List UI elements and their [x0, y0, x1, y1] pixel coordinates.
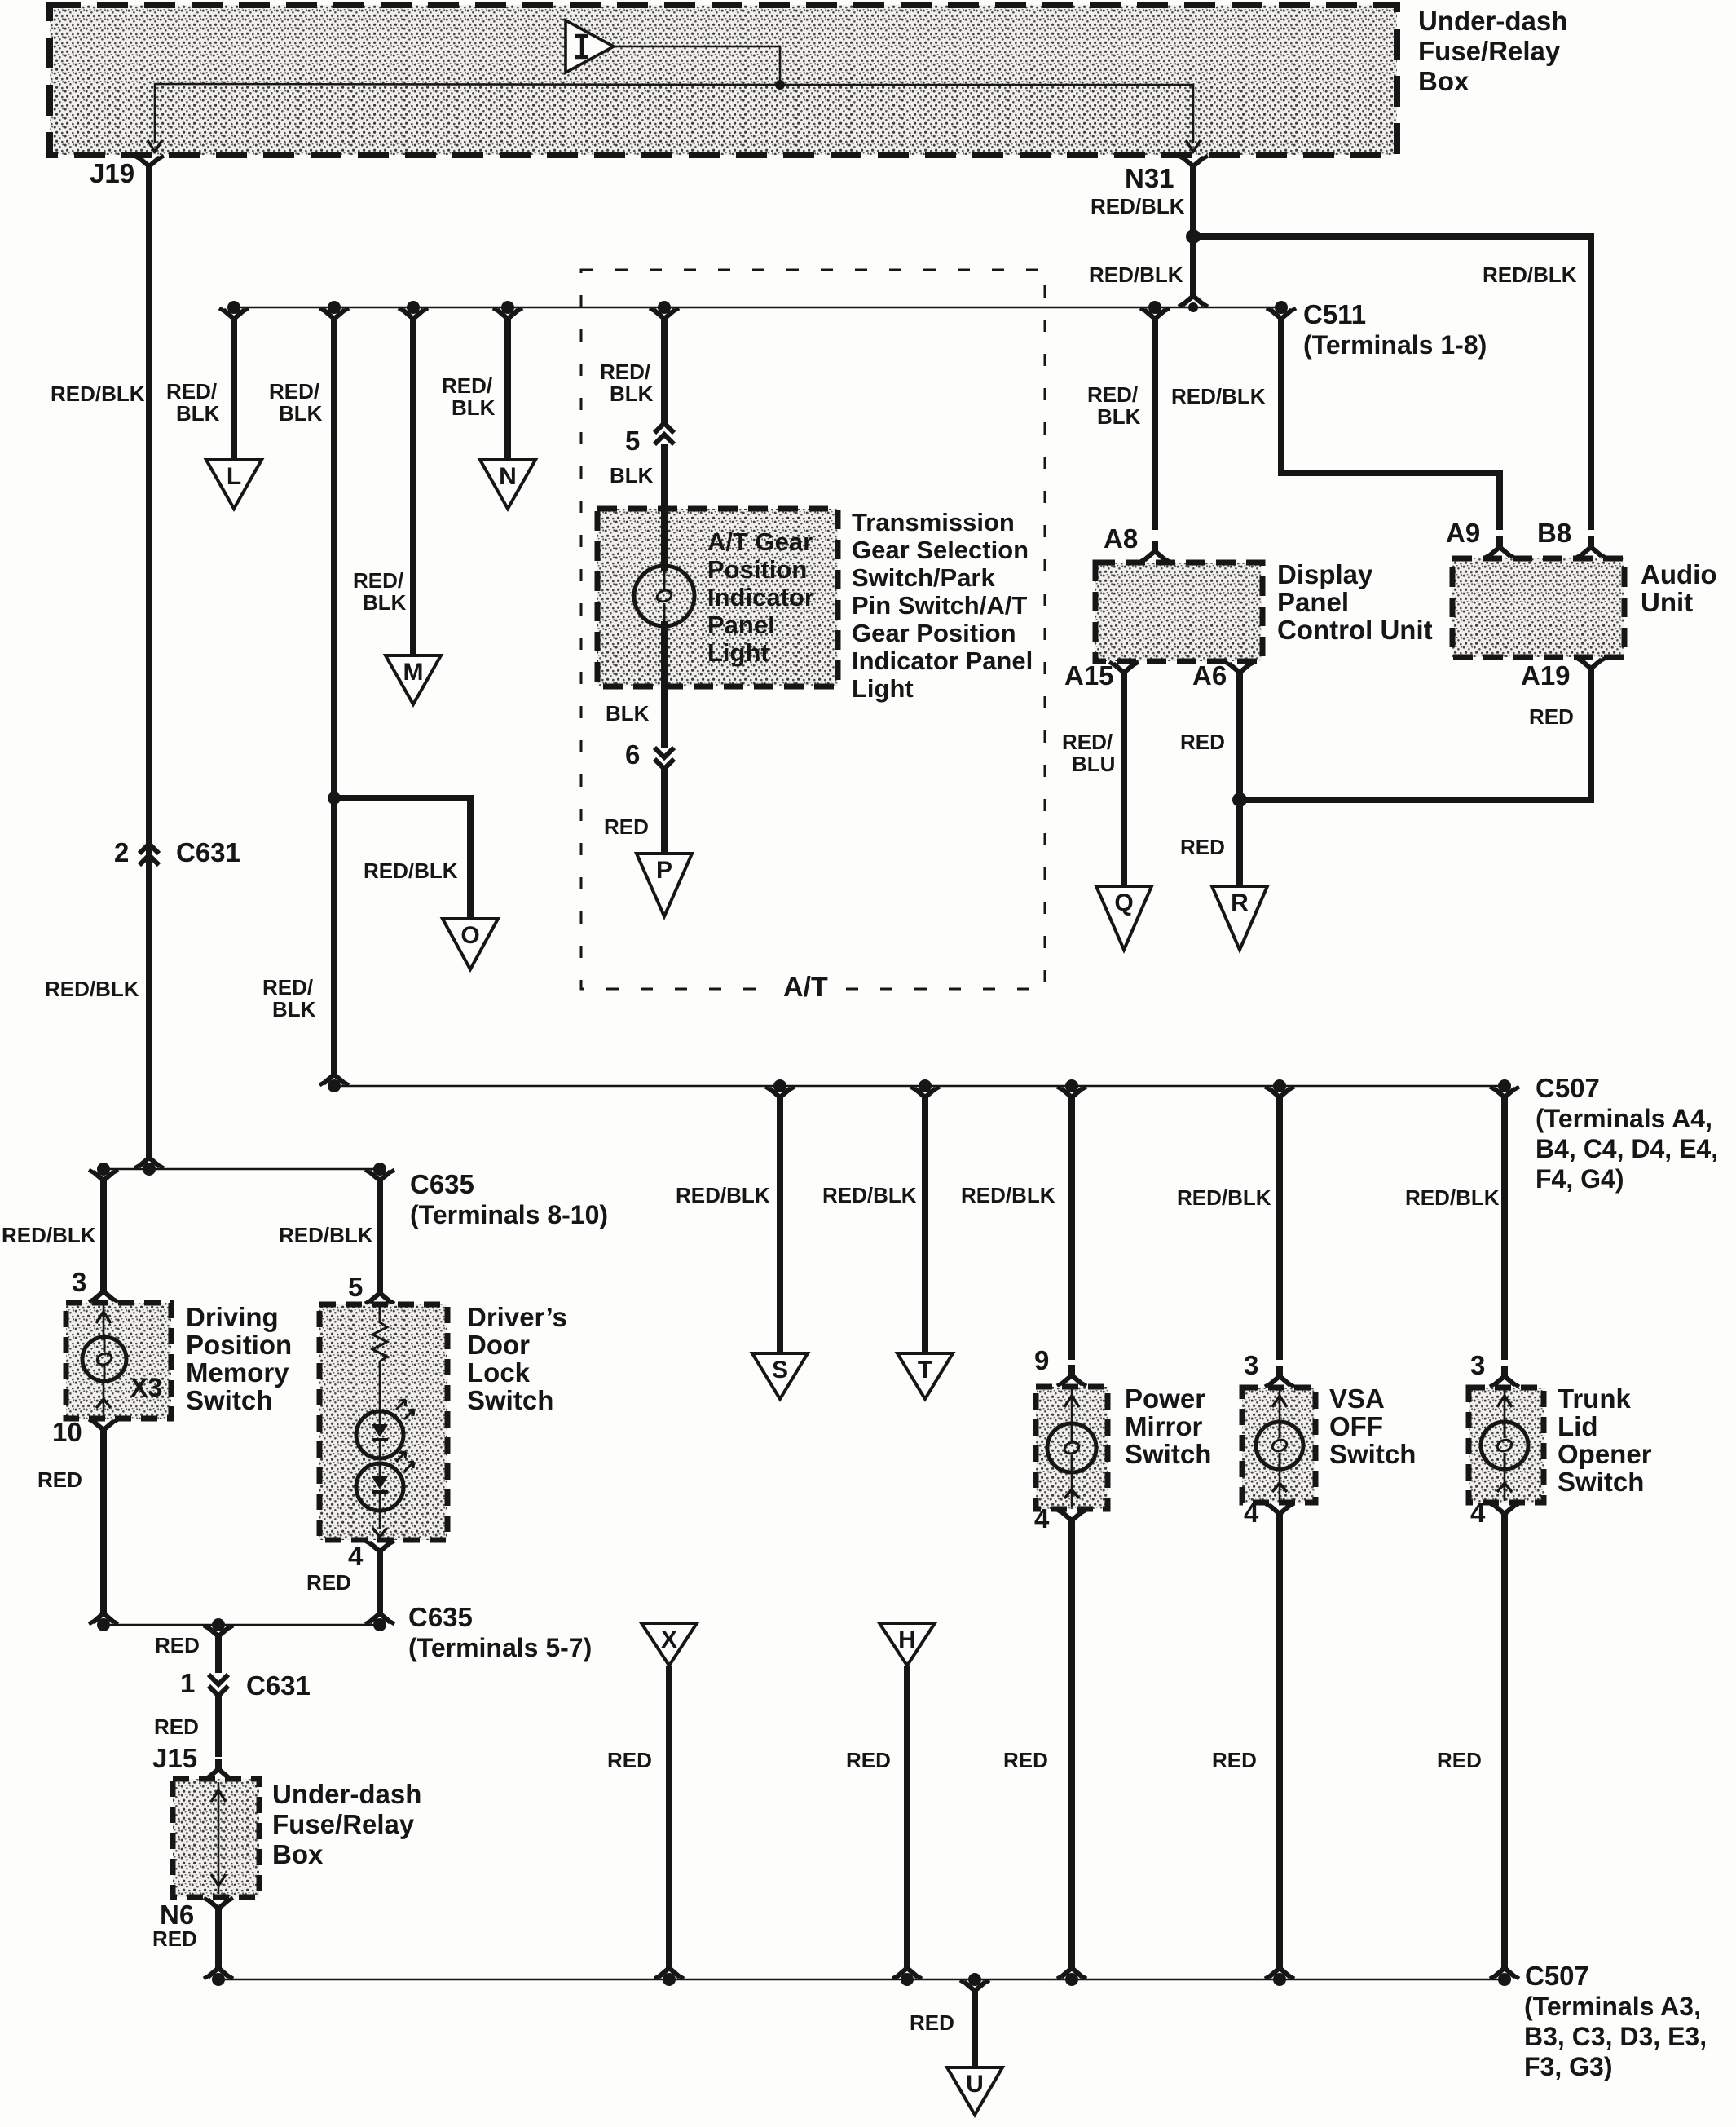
label RED (U) [910, 2010, 954, 2035]
arrow into J19 [148, 140, 162, 152]
wire to VSA switch [1265, 1087, 1294, 1360]
svg-text:RED/BLK: RED/BLK [1177, 1185, 1271, 1210]
wire A19 RED [1240, 675, 1591, 800]
svg-text:RED/: RED/ [1062, 730, 1113, 754]
node bus2 right end [1498, 1079, 1511, 1092]
node bus4 at X [663, 1973, 676, 1986]
svg-text:RED/: RED/ [353, 568, 403, 593]
svg-text:A15: A15 [1064, 660, 1114, 691]
svg-text:5: 5 [348, 1272, 363, 1302]
svg-text:N: N [499, 463, 517, 490]
svg-text:Memory: Memory [186, 1357, 289, 1388]
A/T gear position indicator panel light (bulb box) [597, 509, 838, 686]
terminal 5 (door lock) [348, 1272, 394, 1304]
wire to audio unit B8 [1193, 236, 1591, 530]
svg-text:(Terminals A4,: (Terminals A4, [1536, 1104, 1712, 1133]
svg-text:3: 3 [1470, 1350, 1485, 1380]
label: Driver's Door Lock Switch [467, 1302, 567, 1415]
connector triangle P [637, 854, 692, 916]
terminal 3 (memory switch) [72, 1267, 118, 1302]
node bus2 at VSA [1273, 1079, 1286, 1092]
svg-text:F4, G4): F4, G4) [1536, 1164, 1624, 1194]
node bus4 right end [1498, 1973, 1511, 1986]
svg-text:Switch: Switch [1558, 1467, 1644, 1497]
branch wire to O [334, 798, 470, 920]
svg-text:RED/: RED/ [262, 975, 313, 1000]
svg-text:C635: C635 [408, 1602, 473, 1632]
svg-text:Lock: Lock [467, 1357, 531, 1388]
terminal A9 [1446, 518, 1514, 558]
svg-text:C631: C631 [246, 1670, 311, 1701]
svg-text:Unit: Unit [1641, 587, 1693, 617]
svg-text:4: 4 [1244, 1498, 1259, 1528]
label RED/BLK (trunk) [1405, 1185, 1500, 1210]
display panel control unit [1095, 563, 1262, 661]
terminal at C635 bus [134, 1147, 164, 1168]
node bus3 mid [212, 1618, 225, 1631]
label: Under-dash Fuse/Relay Box [1418, 6, 1567, 96]
trunk lid opener switch box [1469, 1388, 1544, 1503]
svg-text:C511: C511 [1303, 299, 1366, 329]
svg-text:9: 9 [1034, 1345, 1049, 1375]
label inside bulb box [707, 527, 814, 667]
wire memory switch RED [100, 1436, 107, 1610]
connector triangle H [879, 1623, 935, 1666]
bus C635 terminals 8-10 [104, 1168, 380, 1171]
node bus4 at U [968, 1973, 981, 1986]
svg-text:RED/: RED/ [600, 360, 650, 384]
svg-text:4: 4 [1470, 1498, 1486, 1528]
terminal 9 [1034, 1345, 1086, 1386]
connector triangle R [1212, 886, 1267, 950]
svg-text:B8: B8 [1537, 518, 1571, 548]
label: Trunk Lid Opener Switch [1558, 1383, 1652, 1497]
label: Display Panel Control Unit [1277, 559, 1433, 645]
svg-text:Driving: Driving [186, 1302, 279, 1332]
svg-text:Mirror: Mirror [1125, 1411, 1203, 1441]
svg-text:Display: Display [1277, 559, 1373, 589]
node on bus at L branch [227, 301, 240, 314]
svg-text:P: P [656, 857, 672, 884]
label: Power Mirror Switch [1125, 1383, 1211, 1469]
svg-text:F3, G3): F3, G3) [1524, 2052, 1612, 2081]
wire J19 RED/BLK [146, 173, 152, 1156]
svg-text:J15: J15 [152, 1743, 197, 1773]
terminal at bus4 (X) [654, 1957, 684, 1979]
wire to driving position memory switch [89, 1170, 118, 1292]
wire to A/T light [650, 308, 679, 425]
bus C507 terminals A4-G4 [334, 1085, 1506, 1088]
label RED/BLK (L branch) [166, 379, 220, 426]
terminal 10 [52, 1417, 118, 1447]
svg-text:BLK: BLK [610, 463, 654, 488]
svg-text:OFF: OFF [1329, 1411, 1383, 1441]
terminal 4 (VSA) [1244, 1498, 1294, 1528]
svg-text:C507: C507 [1536, 1073, 1600, 1103]
svg-text:Trunk: Trunk [1558, 1383, 1631, 1414]
label RED (P branch) [604, 814, 649, 839]
svg-text:4: 4 [348, 1541, 364, 1571]
node bus3 left [97, 1618, 110, 1631]
svg-text:Box: Box [272, 1839, 324, 1869]
node on bus at N branch [501, 301, 514, 314]
svg-text:X3: X3 [130, 1373, 162, 1402]
bulb power mirror [1047, 1423, 1096, 1472]
terminal A19 [1521, 658, 1606, 691]
wire to trunk switch [1490, 1087, 1519, 1360]
svg-text:C631: C631 [176, 837, 240, 867]
wire to power mirror switch [1057, 1087, 1086, 1360]
wire trunk to C507 bus [1501, 1520, 1508, 1965]
label RED/BLK (T) [822, 1183, 917, 1207]
svg-text:T: T [918, 1357, 932, 1383]
label RED/BLK (A9 branch) [1171, 384, 1266, 408]
svg-text:RED: RED [155, 1633, 200, 1657]
svg-text:4: 4 [1034, 1503, 1050, 1533]
svg-text:3: 3 [72, 1267, 86, 1297]
label C507 (A3) [1524, 1961, 1707, 2081]
node bus2 at power mirror [1065, 1079, 1078, 1092]
wire bus3 down RED [204, 1626, 233, 1673]
wire H RED [904, 1666, 910, 1965]
svg-text:RED/BLK: RED/BLK [51, 382, 145, 406]
arrow into N31 [1186, 140, 1201, 152]
terminal A6 [1192, 660, 1254, 691]
svg-text:S: S [772, 1357, 788, 1383]
svg-text:M: M [403, 659, 424, 686]
svg-text:B3, C3, D3, E3,: B3, C3, D3, E3, [1524, 2022, 1707, 2051]
connector triangle Q [1096, 886, 1152, 950]
svg-text:RED: RED [846, 1748, 891, 1772]
trunk switch internals [1497, 1389, 1512, 1501]
node bus4 at VSA [1273, 1973, 1286, 1986]
svg-text:1: 1 [180, 1668, 195, 1698]
terminal at bus4 (power mirror) [1057, 1957, 1086, 1979]
terminal B8 [1537, 518, 1606, 558]
svg-text:RED/BLK: RED/BLK [45, 977, 139, 1001]
svg-text:(Terminals 1-8): (Terminals 1-8) [1303, 330, 1487, 360]
label RED/BLK (J19 lower) [45, 977, 139, 1001]
svg-text:Light: Light [707, 638, 769, 667]
label X3 [130, 1373, 162, 1402]
svg-text:RED/: RED/ [442, 373, 492, 398]
node on bus at O branch [328, 301, 341, 314]
svg-text:5: 5 [625, 426, 640, 456]
terminal 4 (power mirror) [1034, 1503, 1086, 1533]
node bus4 left end [212, 1973, 225, 1986]
terminal at C635 5-7 bus (left) [89, 1603, 118, 1624]
node on bus at A8 branch [1148, 301, 1161, 314]
node at bus right end [1275, 301, 1288, 314]
svg-text:Driver’s: Driver’s [467, 1302, 567, 1332]
door lock internals: resistor [372, 1306, 387, 1411]
label RED/BLK (A/T branch) [600, 360, 654, 406]
svg-text:BLU: BLU [1072, 752, 1115, 776]
svg-text:Audio: Audio [1641, 559, 1716, 589]
label C635 (8-10) [410, 1169, 608, 1229]
label RED/BLK (memory switch) [2, 1223, 96, 1247]
fuse box internals [211, 1782, 226, 1894]
under-dash fuse/relay box (bottom) [173, 1779, 259, 1897]
node bus2 left end [328, 1079, 341, 1092]
wire inside fuse box to J19 [155, 84, 780, 143]
connector triangle S [752, 1353, 808, 1399]
svg-text:BLK: BLK [452, 395, 496, 420]
svg-text:Indicator: Indicator [707, 583, 814, 611]
svg-text:R: R [1231, 889, 1249, 916]
VSA switch internals [1272, 1389, 1287, 1501]
terminal at bus4 left end [204, 1957, 233, 1979]
connector triangle L [206, 460, 262, 509]
svg-text:Light: Light [852, 674, 914, 703]
wire BLK lower [661, 686, 668, 748]
svg-text:RED/BLK: RED/BLK [1405, 1185, 1500, 1210]
connector triangle M [386, 655, 441, 704]
door lock LED 2 [356, 1452, 414, 1537]
svg-text:Position: Position [707, 555, 807, 584]
wire N6 RED [215, 1915, 222, 1965]
wire to L RED/BLK [219, 308, 249, 461]
svg-text:H: H [898, 1626, 916, 1653]
label RED/BLK (N31 upper) [1091, 194, 1185, 218]
svg-text:BLK: BLK [606, 701, 650, 726]
label BLK (upper) [610, 463, 654, 488]
svg-text:RED/BLK: RED/BLK [676, 1183, 770, 1207]
terminal 3 (VSA) [1244, 1350, 1294, 1387]
svg-text:Q: Q [1114, 889, 1133, 916]
wire to S RED/BLK [765, 1087, 795, 1355]
svg-text:Switch: Switch [1329, 1439, 1416, 1469]
svg-text:RED/BLK: RED/BLK [279, 1223, 373, 1247]
terminal N31 [1125, 156, 1208, 193]
svg-text:Switch/Park: Switch/Park [852, 563, 995, 592]
wire X RED [666, 1666, 672, 1965]
terminal 4 (door lock) [348, 1541, 394, 1571]
label RED (X) [607, 1748, 652, 1772]
terminal at C511 bus [1179, 285, 1208, 307]
wire RED to P [661, 769, 668, 855]
wire to door lock switch [365, 1170, 394, 1292]
door lock LED 1 [356, 1400, 414, 1458]
svg-text:RED: RED [607, 1748, 652, 1772]
label RED/BLK (lower) [262, 975, 316, 1022]
A/T dashed region [581, 270, 1045, 989]
label RED/BLK (M branch) [353, 568, 407, 615]
node c635 right [373, 1163, 386, 1176]
svg-text:Panel: Panel [707, 611, 775, 639]
svg-text:L: L [227, 463, 241, 490]
label RED (A6 upper) [1180, 730, 1225, 754]
label RED (above C631) [155, 1633, 200, 1657]
wire A15 RED/BLU to Q [1121, 679, 1127, 888]
svg-text:Position: Position [186, 1330, 292, 1360]
svg-text:RED: RED [1437, 1748, 1482, 1772]
terminal N6 [160, 1898, 233, 1930]
bulb A/T gear light [634, 566, 694, 626]
node on bus at M branch [407, 301, 420, 314]
svg-text:Transmission: Transmission [852, 508, 1015, 536]
connector C631 pin 1 [180, 1668, 311, 1701]
svg-text:BLK: BLK [176, 401, 220, 426]
label RED/BLU [1062, 730, 1115, 776]
label A/T [771, 972, 836, 1006]
svg-text:Fuse/Relay: Fuse/Relay [1418, 36, 1561, 66]
wire VSA to C507 bus [1276, 1520, 1283, 1965]
svg-text:Pin Switch/A/T: Pin Switch/A/T [852, 591, 1027, 620]
svg-text:VSA: VSA [1329, 1383, 1385, 1414]
wire N31 to bus [1190, 236, 1196, 290]
terminal J19 [90, 156, 164, 188]
label RED (VSA) [1212, 1748, 1257, 1772]
svg-text:Opener: Opener [1558, 1439, 1652, 1469]
connector triangle T [897, 1353, 953, 1399]
label RED/BLK (S) [676, 1183, 770, 1207]
svg-text:Control Unit: Control Unit [1277, 615, 1433, 645]
terminal at C635 5-7 bus (right) [365, 1603, 394, 1624]
wire door lock RED [377, 1558, 383, 1610]
svg-text:A/T: A/T [783, 972, 828, 1003]
svg-text:X: X [661, 1626, 677, 1653]
wire to M RED/BLK [399, 308, 428, 657]
label RED/BLK (upper) [269, 379, 323, 426]
under-dash fuse/relay box (top) [50, 5, 1397, 155]
label: VSA OFF Switch [1329, 1383, 1416, 1469]
label C507 (A4) [1536, 1073, 1718, 1194]
svg-text:RED: RED [1003, 1748, 1048, 1772]
svg-text:RED/BLK: RED/BLK [961, 1183, 1055, 1207]
label: Driving Position Memory Switch [186, 1302, 292, 1415]
terminal A15 [1064, 660, 1139, 691]
junction node [328, 792, 341, 805]
label RED/BLK (B8 branch) [1483, 263, 1577, 287]
label RED/BLK (N31 lower) [1089, 263, 1183, 287]
driving position memory switch box [66, 1303, 171, 1419]
label RED/BLK (O branch) [364, 858, 458, 883]
power mirror switch box [1036, 1387, 1108, 1509]
label RED (power mirror) [1003, 1748, 1048, 1772]
svg-text:Switch: Switch [186, 1385, 272, 1415]
label C635 (5-7) [408, 1602, 592, 1662]
svg-text:BLK: BLK [272, 997, 316, 1022]
connector pin 5 [625, 423, 674, 456]
svg-text:(Terminals A3,: (Terminals A3, [1524, 1992, 1701, 2021]
svg-text:RED/: RED/ [269, 379, 319, 404]
svg-text:Door: Door [467, 1330, 530, 1360]
svg-text:10: 10 [52, 1417, 82, 1447]
wire to U RED [960, 1980, 989, 2069]
bus C507 terminals A3-G3 [218, 1979, 1505, 1981]
node bus2 at T [919, 1079, 932, 1092]
svg-text:Under-dash: Under-dash [1418, 6, 1567, 36]
svg-text:Panel: Panel [1277, 587, 1349, 617]
label: Audio Unit [1641, 559, 1716, 617]
wire RED to J15 [215, 1696, 222, 1757]
bulb memory switch [82, 1337, 126, 1381]
node bus2 at S [773, 1079, 786, 1092]
label RED/BLK (VSA) [1177, 1185, 1271, 1210]
label RED (H) [846, 1748, 891, 1772]
connector pin 6 [625, 739, 674, 770]
svg-text:BLK: BLK [610, 382, 654, 406]
node c635 at J19 [143, 1163, 156, 1176]
terminal at bus4 (VSA) [1265, 1957, 1294, 1979]
svg-text:C507: C507 [1525, 1961, 1589, 1991]
node bus4 at H [901, 1973, 914, 1986]
svg-text:RED/BLK: RED/BLK [1483, 263, 1577, 287]
junction node A6/A19 [1232, 792, 1247, 807]
wire to N RED/BLK [493, 308, 522, 461]
svg-text:Switch: Switch [467, 1385, 553, 1415]
svg-text:RED/BLK: RED/BLK [1089, 263, 1183, 287]
svg-text:A6: A6 [1192, 660, 1227, 691]
svg-text:RED/BLK: RED/BLK [822, 1183, 917, 1207]
svg-text:RED/BLK: RED/BLK [2, 1223, 96, 1247]
svg-text:C635: C635 [410, 1169, 474, 1199]
node bus4 at power mirror [1065, 1973, 1078, 1986]
label RED (above J15) [154, 1714, 199, 1739]
connector C631 pin 2 [114, 837, 240, 867]
arrow I (triangle) [566, 20, 614, 73]
connector triangle U [947, 2067, 1002, 2115]
node on bus at A/T light branch [658, 301, 671, 314]
connector triangle O [443, 919, 498, 969]
terminal at bus4 (trunk) [1490, 1957, 1519, 1979]
svg-text:Fuse/Relay: Fuse/Relay [272, 1809, 415, 1839]
wire from I to junction [614, 46, 780, 85]
wire through bulb [661, 509, 668, 686]
wire A6 RED to R [1236, 679, 1243, 888]
svg-text:U: U [966, 2071, 984, 2098]
junction in fuse box [775, 80, 785, 90]
power mirror switch internals [1064, 1388, 1079, 1507]
label RED (door lock) [306, 1570, 351, 1595]
svg-text:Power: Power [1125, 1383, 1205, 1414]
svg-text:Gear Selection: Gear Selection [852, 536, 1029, 564]
bulb VSA [1256, 1422, 1303, 1469]
terminal A8 [1104, 523, 1170, 562]
svg-text:BLK: BLK [279, 401, 323, 426]
svg-text:Lid: Lid [1558, 1411, 1597, 1441]
terminal 4 (trunk) [1470, 1498, 1519, 1528]
svg-text:RED: RED [1212, 1748, 1257, 1772]
svg-text:RED: RED [910, 2010, 954, 2035]
connector triangle N [480, 460, 535, 509]
svg-text:RED: RED [37, 1467, 82, 1492]
terminal at bus4 (H) [892, 1957, 922, 1979]
svg-text:A19: A19 [1521, 660, 1571, 691]
svg-text:O: O [460, 922, 479, 949]
svg-text:RED: RED [1529, 704, 1574, 729]
svg-text:RED: RED [604, 814, 649, 839]
wire to display unit A8 [1140, 308, 1170, 530]
label C511 [1303, 299, 1487, 360]
svg-text:Gear Position: Gear Position [852, 619, 1016, 647]
svg-text:6: 6 [625, 739, 640, 770]
svg-text:A9: A9 [1446, 518, 1480, 548]
svg-text:A/T Gear: A/T Gear [707, 527, 813, 556]
label RED/BLK (A8 branch) [1087, 382, 1141, 429]
label RED (trunk) [1437, 1748, 1482, 1772]
bus C635 terminals 5-7 [104, 1624, 380, 1626]
svg-text:Switch: Switch [1125, 1439, 1211, 1469]
svg-text:RED: RED [152, 1926, 197, 1951]
svg-text:Indicator Panel: Indicator Panel [852, 646, 1033, 675]
wire C511 to A9 [1267, 308, 1500, 530]
svg-text:Under-dash: Under-dash [272, 1779, 421, 1809]
svg-text:Box: Box [1418, 66, 1469, 96]
svg-text:RED: RED [154, 1714, 199, 1739]
connector triangle X [641, 1623, 697, 1666]
